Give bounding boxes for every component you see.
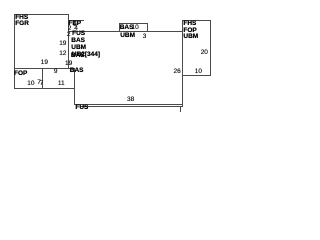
dim 7 overlapped b (40, 81, 44, 88)
label FGR garage (15, 21, 29, 28)
wall: right wing right edge (210, 20, 211, 76)
label FHS garage (15, 15, 28, 22)
label UBM right wing (183, 34, 198, 41)
label BAS bump-out (120, 25, 134, 32)
label FUS bottom (75, 105, 88, 112)
tick below bottom right (180, 106, 181, 112)
wall: right wing top (182, 20, 211, 21)
dim 7 overlapped a (37, 80, 41, 87)
dim 2 left of FUS (67, 32, 71, 39)
wall: BAS bump-out right (147, 23, 148, 31)
wall: main roofline (68, 31, 183, 32)
wall: FOP interior divider (42, 68, 43, 89)
dim 3 below bump-out (143, 34, 147, 41)
wall: BAS bump-out left (119, 23, 120, 31)
dim 26 outside right wing (174, 69, 181, 76)
dim 9 FOP right top (54, 69, 58, 76)
wall: house bottom line upper (74, 104, 182, 105)
label FEP porch (68, 21, 81, 28)
dim 19 at corner (65, 61, 72, 68)
label overlapped BAS behind (71, 53, 85, 60)
wall: right edge full (182, 20, 183, 107)
label FOP porch (14, 71, 27, 78)
wall: right wing bottom (182, 75, 211, 76)
label BAS main (71, 38, 85, 45)
dim 10 FOP bottom left (27, 81, 34, 88)
dim 4 below FEP (74, 26, 78, 33)
dim 10 bump-out (132, 25, 139, 32)
label UBM below bump-out (120, 33, 135, 40)
wall: shared vertical garage right / house left upper (68, 14, 69, 68)
dim 19 garage bottom (41, 60, 48, 67)
label overlapped UB2[344] (72, 52, 100, 59)
wall: house bottom line lower (80, 106, 183, 107)
wall: top edge of FHS/FGR garage box (14, 14, 69, 15)
label FHS right wing (183, 21, 196, 28)
wall: FEP top stub (68, 20, 84, 21)
dim 19 garage right (59, 41, 66, 48)
wall: FOP bottom edge (14, 88, 76, 89)
wall: BAS bump-out top (119, 23, 148, 24)
label UBM main (71, 45, 86, 52)
dim 20 right wing (201, 50, 208, 57)
dim 10 right wing bottom (195, 69, 202, 76)
label FOP right wing (183, 28, 196, 35)
label BAS corner of main (70, 68, 84, 75)
dim 2 below FEP (68, 26, 72, 33)
wall: left edge of garage and FOP porch (14, 14, 15, 89)
wall: house lower-left vertical (74, 68, 75, 105)
wall: garage bottom line (14, 68, 76, 69)
dim 5 over FEP (73, 22, 77, 29)
dim 12 garage right (59, 51, 66, 58)
label FUS main (72, 31, 85, 38)
dim 11 FOP bottom right (58, 81, 65, 88)
dim 38 bottom (127, 97, 134, 104)
